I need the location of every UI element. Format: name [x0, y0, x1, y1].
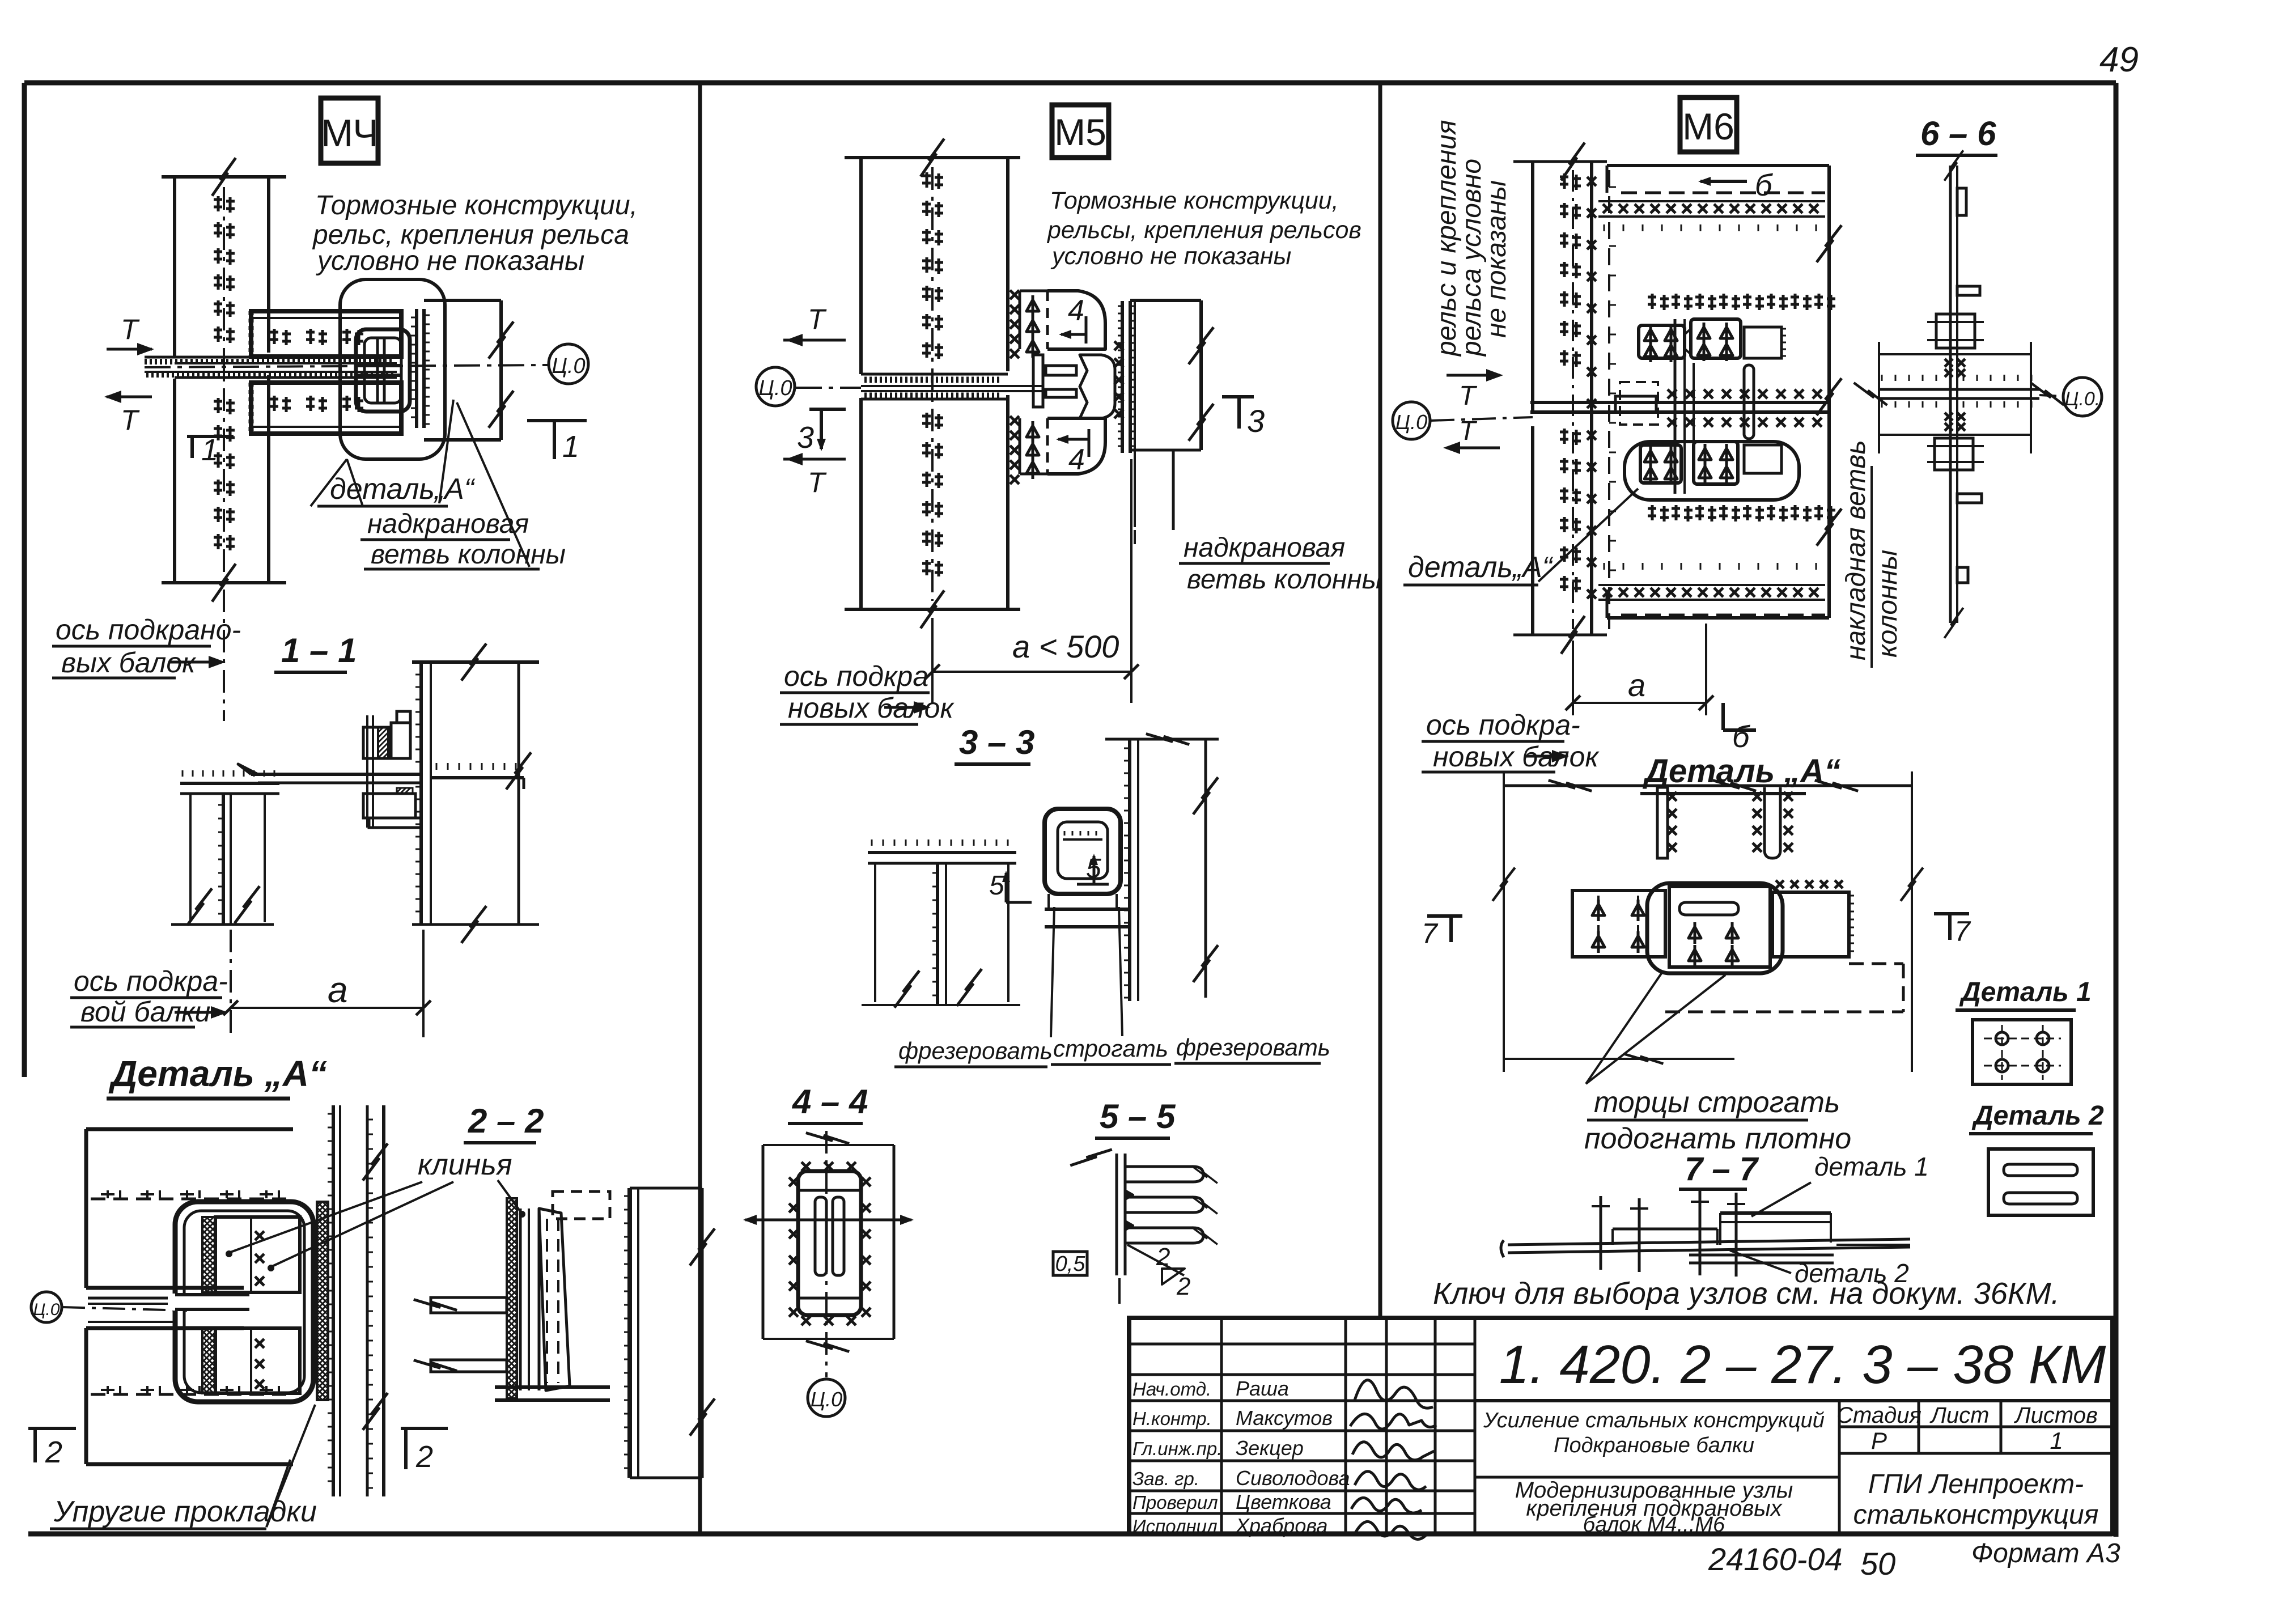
section mark 1 right (M4) — [527, 421, 587, 464]
lower beam web plate (detail A) — [86, 1328, 293, 1464]
svg-text:Раша: Раша — [1236, 1377, 1289, 1400]
svg-text:Т: Т — [1459, 381, 1478, 411]
label: nakladnaya vetv kolonny (M6, vertical) — [1841, 440, 1903, 668]
weld leader 2/2 (5-5) — [1119, 1243, 1190, 1304]
weld strip at column face (detail A) — [317, 1202, 328, 1400]
title Detail 1 — [1956, 977, 2092, 1010]
inner bearing blocks (detail A) — [215, 1217, 300, 1393]
svg-text:Тормозные конструкции,: Тормозные конструкции, — [315, 190, 638, 221]
section mark T2 left (detail A) — [28, 1428, 76, 1469]
section view title 7-7 — [1679, 1151, 1759, 1189]
svg-text:строгать: строгать — [1053, 1035, 1168, 1062]
svg-text:б: б — [1732, 720, 1750, 754]
svg-text:Ключ для выбора узлов см.: Ключ для выбора узлов см. на докум. 36КМ… — [1433, 1277, 2060, 1311]
section mark T upper (M5) — [783, 303, 846, 346]
left bolt plate (detail A M6) — [1572, 891, 1665, 957]
stage sheet headers — [1836, 1403, 2098, 1454]
svg-text:Максутов: Максутов — [1236, 1406, 1333, 1430]
label: nadkranovaya vetv kolonny (M4) — [360, 402, 566, 570]
flat splice assembly in 7-7 — [1501, 1190, 1910, 1277]
section mark T2 right (detail A) — [401, 1428, 448, 1474]
label: axis of crane beams (M4) — [52, 590, 241, 721]
signature rows labels and names — [1132, 1377, 1350, 1537]
label: axis of crane beam (1-1) — [70, 965, 228, 1028]
svg-text:Тормозные конструкции,: Тормозные конструкции, — [1050, 187, 1339, 214]
svg-text:Стадия: Стадия — [1836, 1403, 1922, 1428]
lower bolt plate with bolts (M5 joint) — [1010, 416, 1047, 484]
plate bottom weld seam rows (M6) — [1598, 563, 1825, 615]
detail 2 plate with slots — [1988, 1149, 2093, 1215]
crane girder column (left, M4 elevation) — [162, 155, 286, 604]
svg-text:Храброва: Храброва — [1235, 1514, 1327, 1537]
svg-text:новых балок: новых балок — [788, 692, 955, 724]
weld size box 0,5 (5-5) — [1053, 1252, 1087, 1276]
cut mark 4 upper (M5) — [1059, 294, 1086, 344]
splice plate on column flange (M5) — [1118, 301, 1135, 453]
section view title 2-2 — [464, 1102, 544, 1143]
svg-text:2: 2 — [45, 1435, 62, 1469]
clamp yoke (detail A) — [168, 1202, 313, 1402]
column in section 1-1 — [412, 641, 539, 946]
svg-text:6 – 6: 6 – 6 — [1920, 115, 1996, 152]
section marks b top and bottom (M6) — [1698, 168, 1773, 754]
title block left grid — [1129, 1318, 1475, 1534]
svg-text:2: 2 — [1176, 1273, 1190, 1300]
title Detail 2 — [1969, 1101, 2104, 1134]
clamp side view in 2-2 — [495, 1192, 610, 1400]
svg-text:Сиволодова: Сиволодова — [1236, 1466, 1350, 1490]
svg-text:Р: Р — [1871, 1427, 1887, 1454]
svg-text:24160-04: 24160-04 — [1708, 1541, 1843, 1577]
crane girder column (M5 elevation) — [845, 136, 1020, 631]
svg-text:3 – 3: 3 – 3 — [959, 723, 1034, 761]
svg-text:Проверил: Проверил — [1132, 1492, 1218, 1513]
middle plate with slots and callout (detail A M6) — [1647, 883, 1783, 973]
svg-text:МЧ: МЧ — [321, 112, 378, 155]
svg-text:Т: Т — [808, 303, 827, 335]
svg-text:ось подкрано-: ось подкрано- — [56, 614, 241, 646]
svg-text:Т: Т — [121, 313, 140, 345]
document code text — [1499, 1334, 2106, 1395]
node label box M5 — [1052, 105, 1109, 158]
lower curved jaw flange (M5) — [1047, 418, 1105, 474]
svg-text:a: a — [328, 969, 348, 1010]
svg-text:a < 500: a < 500 — [1012, 629, 1119, 664]
section mark T lower (M5) — [783, 453, 846, 498]
svg-text:ось подкра-: ось подкра- — [74, 965, 228, 997]
axis circle Ts.0 right (6-6) — [2039, 378, 2102, 416]
svg-text:2 – 2: 2 – 2 — [468, 1102, 544, 1140]
label detail 1 leader (7-7) — [1751, 1152, 1929, 1216]
brake truss T-beam in 1-1 — [171, 770, 279, 928]
svg-text:ГПИ Ленпроект-: ГПИ Ленпроект- — [1868, 1469, 2084, 1499]
column strip in 4-4 — [763, 1126, 894, 1359]
svg-text:клинья: клинья — [418, 1148, 512, 1181]
label: elastic pads (detail A) — [50, 1405, 317, 1529]
svg-text:ветвь колонны: ветвь колонны — [371, 540, 566, 570]
svg-text:Деталь „А“: Деталь „А“ — [108, 1053, 327, 1094]
svg-text:не показаны: не показаны — [1482, 180, 1512, 338]
svg-text:Лист: Лист — [1929, 1403, 1990, 1428]
svg-text:Т: Т — [808, 467, 827, 498]
svg-text:1: 1 — [201, 433, 218, 467]
svg-text:Подкрановые балки: Подкрановые балки — [1554, 1434, 1754, 1457]
section view title 1-1 — [274, 631, 357, 672]
svg-text:4: 4 — [1068, 294, 1084, 327]
job title text — [1483, 1409, 1825, 1457]
svg-text:Листов: Листов — [2013, 1403, 2098, 1428]
axis circle Ts.0 left (M6) — [1393, 402, 1533, 439]
upper curved jaw flange (M5) — [1047, 291, 1105, 349]
clamp plan in 4-4 — [789, 1162, 871, 1325]
brake T-beam in 3-3 — [862, 839, 1020, 1011]
svg-text:a: a — [1628, 667, 1645, 703]
label: machine ends fit tight (detail A M6) — [1584, 973, 1851, 1155]
svg-text:Зав. гр.: Зав. гр. — [1132, 1468, 1199, 1489]
svg-text:условно не показаны: условно не показаны — [316, 246, 584, 276]
organization text — [1853, 1469, 2099, 1530]
svg-text:4: 4 — [1068, 443, 1085, 476]
svg-text:2: 2 — [1156, 1243, 1170, 1271]
column flange and web (detail A) — [328, 1105, 388, 1496]
cut mark 4 lower (M5) — [1056, 429, 1089, 476]
section title 6-6 — [1916, 115, 1997, 155]
svg-text:Зекцер: Зекцер — [1236, 1436, 1304, 1460]
rivet rows mid plate (M6) — [1648, 294, 1835, 521]
label: nadkranovaya vetv kolonny (M5) — [1135, 530, 1382, 595]
label: kliniya wedges with leaders — [226, 1148, 525, 1271]
section mark T pair (M6) — [1443, 369, 1503, 454]
svg-text:3: 3 — [797, 421, 814, 455]
svg-text:49: 49 — [2099, 40, 2139, 79]
svg-text:Ц.0: Ц.0 — [33, 1300, 60, 1319]
svg-text:1 – 1: 1 – 1 — [281, 631, 357, 669]
format A3 note — [1971, 1538, 2120, 1568]
cut mark 5 right (3-3) — [1077, 854, 1109, 884]
svg-text:5: 5 — [989, 871, 1004, 901]
svg-text:б: б — [1755, 168, 1773, 202]
dimension a (1-1) — [223, 930, 431, 1037]
note text M5: brake structures not shown — [1046, 187, 1361, 270]
svg-text:Формат А3: Формат А3 — [1971, 1538, 2120, 1568]
svg-text:50: 50 — [1860, 1546, 1895, 1581]
svg-text:0,5: 0,5 — [1055, 1252, 1086, 1276]
label detail 2 leader (7-7) — [1730, 1250, 1909, 1288]
svg-text:1: 1 — [562, 430, 579, 464]
cut mark 5 left (3-3) — [989, 871, 1032, 902]
svg-text:Деталь 2: Деталь 2 — [1971, 1101, 2104, 1131]
center axis line with node circle Ts.0 (M4) — [145, 344, 588, 384]
svg-text:Н.контр.: Н.контр. — [1132, 1408, 1212, 1429]
title Detail A (M4) — [107, 1053, 327, 1099]
dimension a<500 (M5) — [925, 459, 1139, 703]
axis circle Ts.0 (detail A) — [31, 1292, 187, 1322]
svg-text:накладная ветвь: накладная ветвь — [1841, 440, 1871, 660]
detail 1 plate with holes — [1973, 1020, 2071, 1084]
svg-text:7: 7 — [1422, 918, 1439, 949]
clamp in 3-3 — [1045, 809, 1130, 927]
svg-text:Деталь 1: Деталь 1 — [1959, 977, 2092, 1007]
svg-text:М6: М6 — [1682, 105, 1734, 147]
beam flange stubs in 2-2 — [414, 1198, 507, 1378]
axis circle Ts.0 (M5) — [756, 367, 861, 406]
svg-text:ось подкра-: ось подкра- — [1426, 709, 1580, 741]
upper bolt plate with bolts (M5 joint) — [1010, 290, 1047, 358]
lower bolt group plates with callout (M6) — [1624, 442, 1799, 500]
node label box M4 — [321, 98, 379, 163]
node set title text — [1515, 1478, 1793, 1537]
svg-text:1. 420. 2 – 27. 3 – 38 КМ: 1. 420. 2 – 27. 3 – 38 КМ — [1499, 1334, 2106, 1395]
section mark T lower + cut 1 (M4) — [104, 391, 234, 467]
section mark T upper (M4) — [107, 313, 154, 355]
note text M4: brake structures not shown — [312, 190, 638, 276]
svg-text:фрезеровать: фрезеровать — [1176, 1034, 1330, 1061]
svg-text:условно не показаны: условно не показаны — [1050, 243, 1291, 270]
beam splice joint at column mid (M4) — [145, 357, 397, 378]
label: detail A leader (M4) — [311, 400, 476, 506]
title block right grid — [1475, 1401, 2113, 1534]
right plate (detail A M6) — [1772, 880, 1854, 957]
vertical note: rails not shown (M6) — [1432, 120, 1512, 357]
section view title 4-4 — [788, 1083, 868, 1123]
cut mark 3 (M5) — [797, 409, 846, 455]
title block outer box — [1129, 1318, 2113, 1534]
svg-text:балок М4...М6: балок М4...М6 — [1583, 1513, 1725, 1537]
detail A boundary callout (rounded) — [340, 279, 445, 459]
sheet page number 49 — [2099, 40, 2139, 79]
svg-text:Гл.инж.пр.: Гл.инж.пр. — [1132, 1438, 1222, 1459]
panel divider 1 — [698, 83, 702, 1534]
title Detail A (M6) — [1640, 753, 1840, 794]
svg-text:колонны: колонны — [1873, 550, 1903, 658]
label: detail A with leader (M6) — [1403, 489, 1638, 585]
comb plate assembly in 5-5 — [1070, 1137, 1220, 1275]
svg-text:4 – 4: 4 – 4 — [792, 1083, 868, 1121]
svg-text:Нач.отд.: Нач.отд. — [1132, 1379, 1211, 1400]
svg-text:Ц.0.: Ц.0. — [2065, 388, 2101, 410]
svg-text:Ц.0: Ц.0 — [811, 1388, 842, 1411]
svg-text:Исполнил: Исполнил — [1132, 1516, 1218, 1537]
svg-text:Т: Т — [121, 404, 140, 436]
hidden plate dashed (detail A M6) — [1665, 964, 1903, 1012]
svg-text:М5: М5 — [1054, 111, 1106, 153]
label: axis of crane beams (M5) — [780, 660, 955, 724]
crane girder column (M6 plan, left band) — [1513, 140, 1607, 656]
svg-text:3: 3 — [1247, 403, 1265, 439]
svg-text:деталь„А“: деталь„А“ — [1408, 551, 1554, 584]
hanging plates from top (detail A M6) — [1657, 787, 1793, 858]
section view title 5-5 — [1095, 1097, 1176, 1138]
clamp device inside detail A — [356, 329, 410, 412]
svg-text:5 – 5: 5 – 5 — [1100, 1097, 1176, 1135]
svg-text:Ц.0: Ц.0 — [1396, 410, 1427, 434]
svg-text:деталь 1: деталь 1 — [1814, 1152, 1929, 1181]
frame lines of detail A (M6) — [1492, 771, 1923, 1072]
rail support plate outline (M6 plan) — [1607, 166, 1842, 618]
svg-text:Цветкова: Цветкова — [1236, 1490, 1331, 1513]
signature squiggles — [1350, 1380, 1436, 1540]
archive number below frame — [1708, 1541, 1895, 1581]
section mark T3 (M5) — [1222, 397, 1265, 439]
labels: frezerovat strogat frezerovat — [894, 907, 1330, 1067]
beam splice joint (M5) — [861, 374, 1043, 399]
svg-text:надкрановая: надкрановая — [1184, 533, 1345, 563]
node label box M6 — [1680, 97, 1737, 152]
svg-text:ветвь колонны: ветвь колонны — [1187, 565, 1382, 595]
column band in 2-2 — [624, 1188, 715, 1478]
central tongue assembly (M5) — [1033, 341, 1123, 418]
wedge strips kliniya (detail A) — [202, 1217, 215, 1393]
bolted bracket stack in 1-1 — [363, 711, 421, 828]
upper beam web plate (detail A) — [86, 1129, 293, 1288]
column in 3-3 — [1105, 727, 1219, 1001]
beam flange in 6-6 — [1851, 342, 2067, 453]
svg-text:ось подкра: ось подкра — [784, 660, 928, 692]
svg-text:1: 1 — [2050, 1427, 2063, 1454]
svg-text:Ц.0: Ц.0 — [758, 376, 792, 400]
svg-text:фрезеровать: фрезеровать — [898, 1037, 1053, 1064]
svg-text:2: 2 — [415, 1440, 433, 1474]
plate top weld seam rows (M6) — [1598, 193, 1825, 231]
upper bolt group plates (M6) — [1639, 319, 1786, 362]
svg-text:торцы строгать: торцы строгать — [1594, 1086, 1840, 1119]
column flange plate (M4) — [411, 309, 430, 428]
column section 6-6 main member — [1927, 149, 1984, 641]
crane leg column (right of M4 joint) — [424, 300, 514, 440]
crane beam top flange in 1-1 — [238, 763, 524, 789]
svg-text:рельсы, крепления рельсов: рельсы, крепления рельсов — [1046, 217, 1361, 244]
svg-text:Усиление стальных конструкций: Усиление стальных конструкций — [1483, 1409, 1825, 1432]
beam flange edges at splice (detail A) — [88, 1298, 176, 1328]
dimension a and axis label (M6) — [1422, 624, 1713, 773]
through rod with arrows (4-4) — [743, 1215, 914, 1225]
hidden column edge dashed (M6) — [1609, 170, 1616, 629]
svg-text:Ц.0: Ц.0 — [552, 354, 585, 378]
section view title 3-3 — [955, 723, 1034, 764]
svg-text:деталь„А“: деталь„А“ — [330, 473, 476, 506]
lower crane beam end (M4) — [251, 383, 401, 434]
svg-text:стальконструкция: стальконструкция — [1853, 1500, 2099, 1530]
upper crane beam end (M4) — [251, 311, 401, 357]
svg-text:новых балок: новых балок — [1433, 741, 1600, 773]
svg-text:7: 7 — [1954, 915, 1971, 947]
panel divider 2 — [1378, 83, 1382, 1318]
axis and circle Ts.0 (4-4) — [808, 1131, 845, 1417]
svg-text:Деталь „А“: Деталь „А“ — [1642, 753, 1840, 790]
central splice plates (M6) — [1530, 319, 1829, 494]
section marks 7 left and right (detail A M6) — [1422, 914, 1971, 949]
note: key for node selection see doc 36KM — [1433, 1277, 2060, 1311]
svg-text:7 – 7: 7 – 7 — [1685, 1151, 1759, 1188]
crane leg column right (M5) — [1130, 300, 1214, 530]
